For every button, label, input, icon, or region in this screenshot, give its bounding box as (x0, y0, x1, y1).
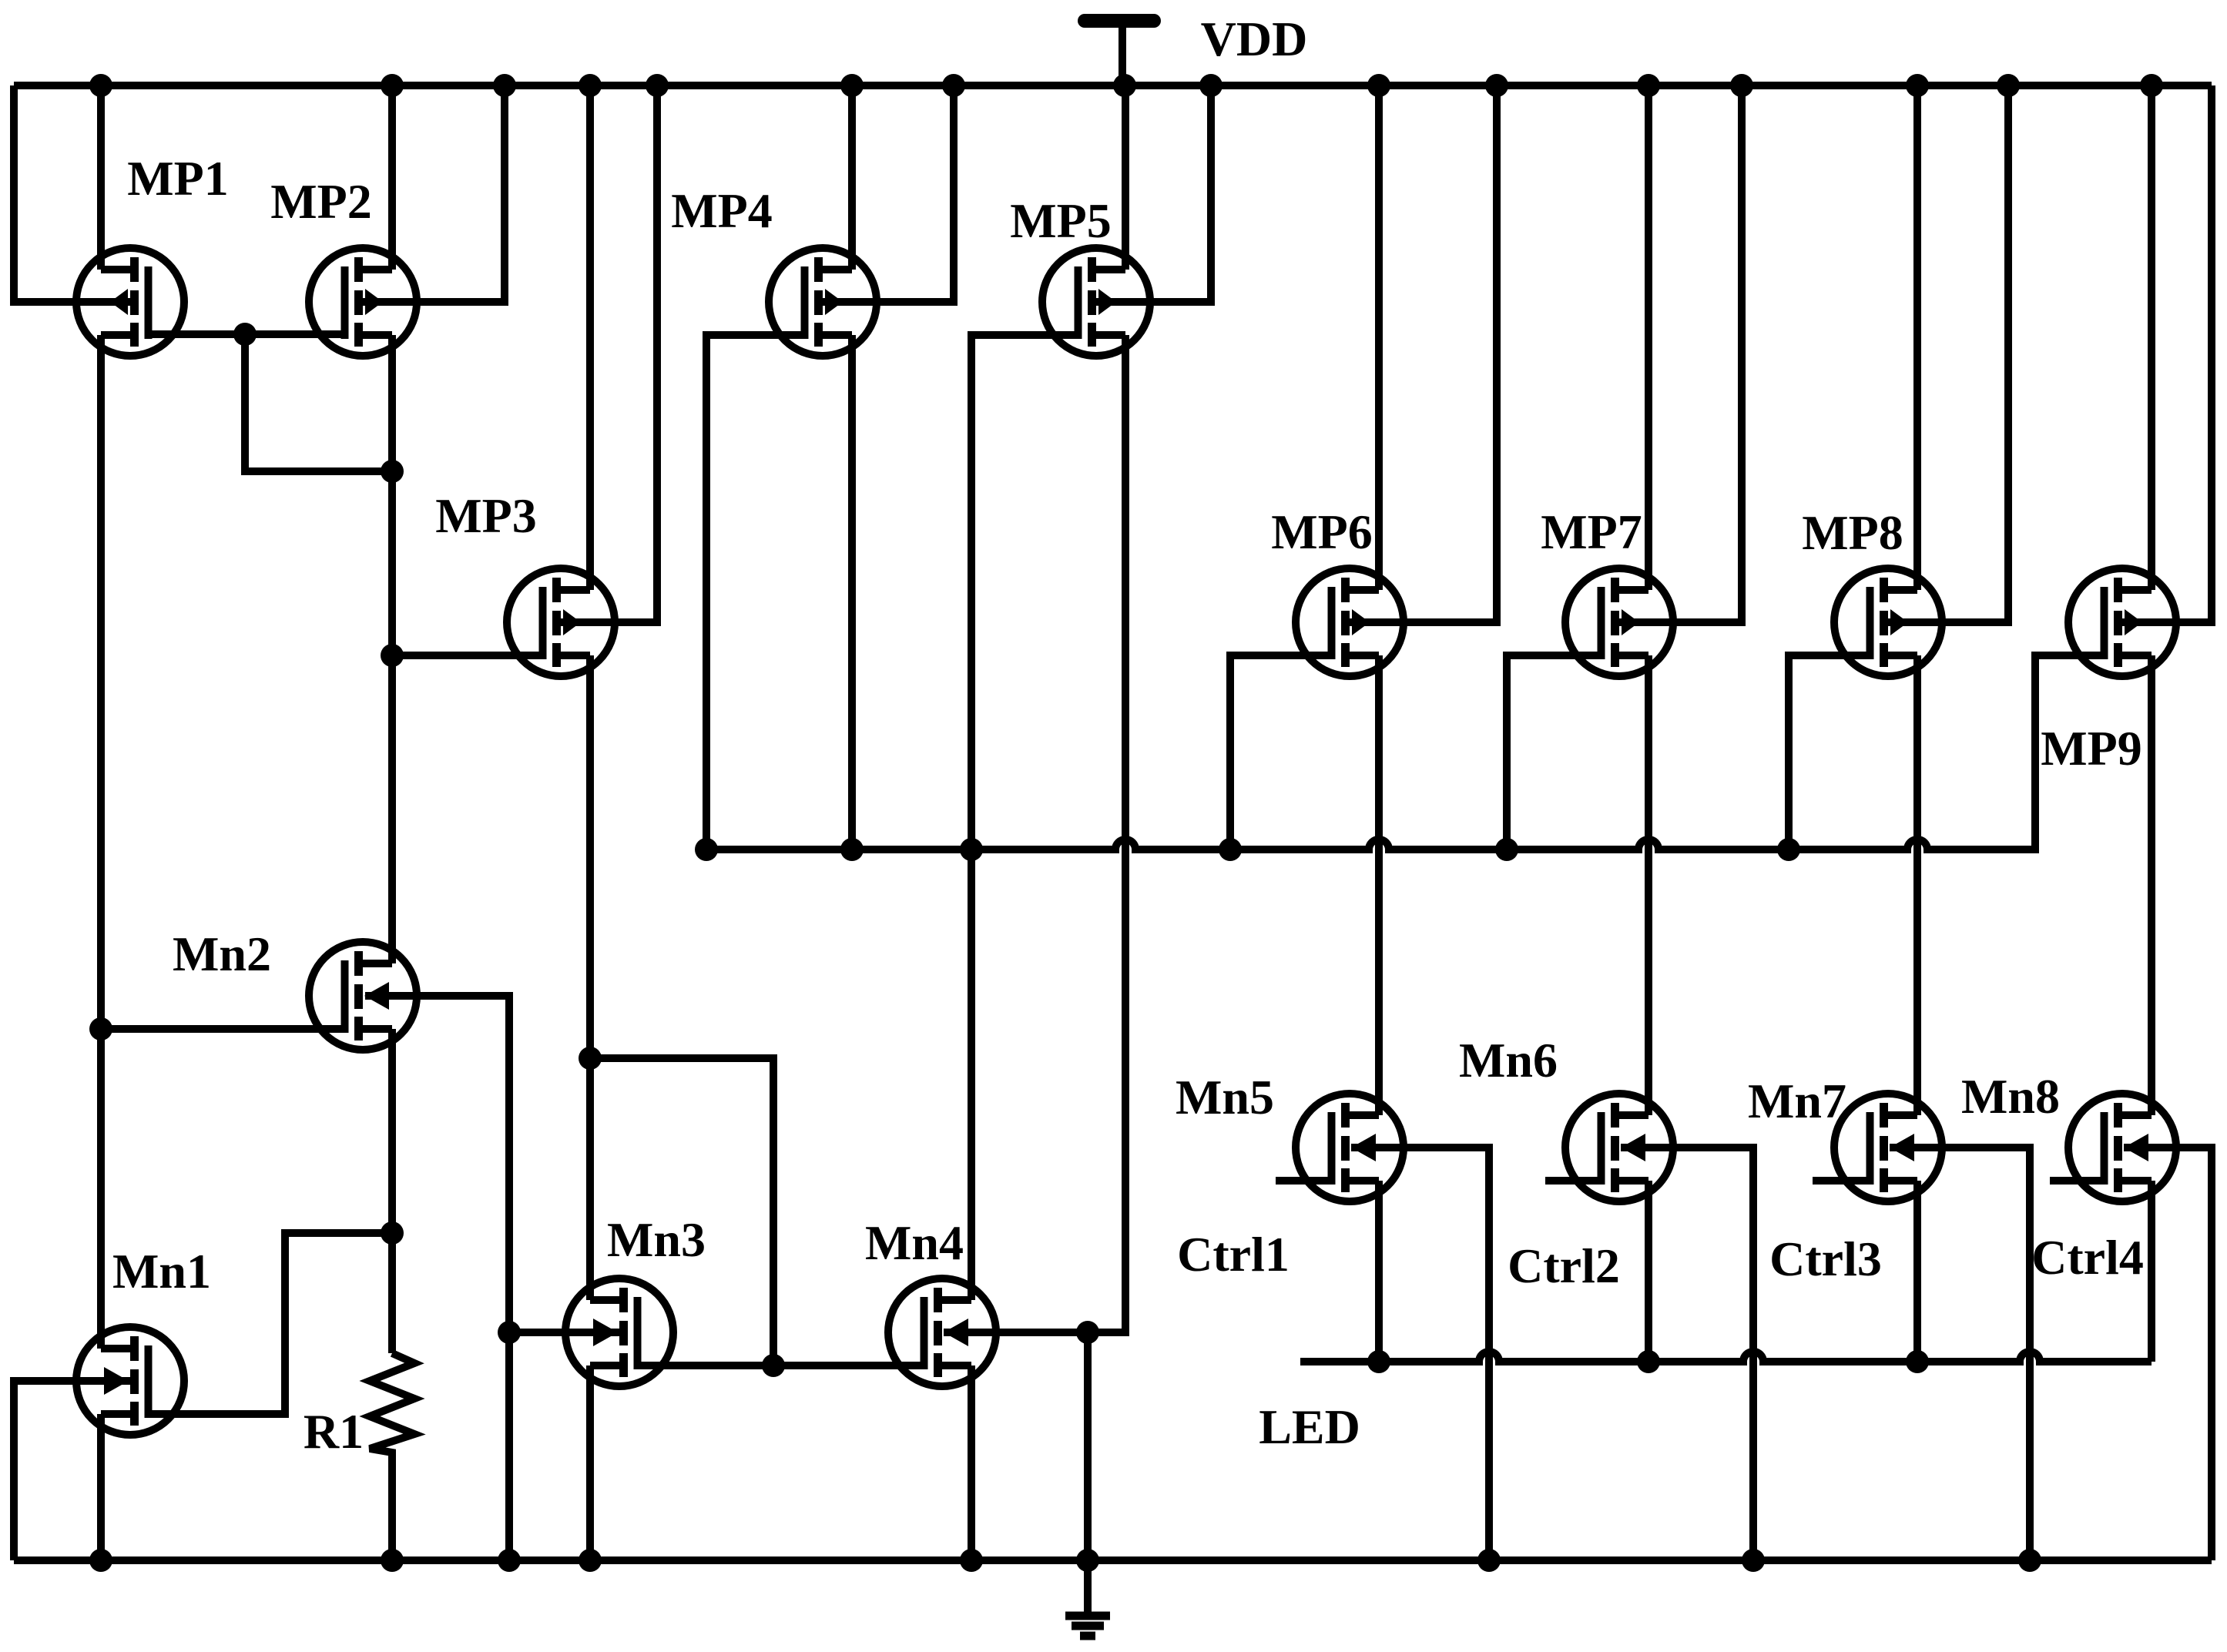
ground symbol bar 3 (1080, 1632, 1095, 1640)
node MP7 drain on VDD rail (1637, 74, 1660, 97)
wire MP8 gate route (1789, 655, 1870, 849)
wire gate node drop to MP2 source (245, 334, 392, 471)
wire MP7 gate route (1507, 655, 1601, 849)
wire Mn5 source to LED line (1375, 1181, 1383, 1362)
wire MP7 source to Mn6 drain (1645, 655, 1652, 1115)
node Mn7 bulk on ground rail (2018, 1549, 2041, 1572)
wire Ctrl3 gate stub (1813, 1177, 1870, 1185)
node MP7 bulk on VDD rail (1730, 74, 1753, 97)
wire Mn2 gate route (101, 1025, 345, 1033)
svg-text:R1: R1 (304, 1404, 364, 1459)
svg-text:Mn6: Mn6 (1459, 1033, 1558, 1087)
resistor R1 zigzag (370, 1353, 414, 1560)
top VDD rail wire (14, 82, 2212, 89)
transistor Mn1 (76, 1327, 184, 1435)
node MP9 drain on VDD rail (2140, 74, 2163, 97)
wire MP3 drain from VDD rail (586, 85, 594, 590)
wire MP7 drain (1645, 85, 1652, 590)
transistor MP3 (507, 568, 615, 676)
wire MP9 drain (2148, 85, 2155, 590)
node Mn4 source on ground rail (960, 1549, 983, 1572)
svg-text:Mn3: Mn3 (607, 1212, 706, 1267)
wire MP8 bulk to VDD rail (1890, 85, 2008, 622)
node Mn1 source on ground rail (89, 1549, 112, 1572)
wire Mn1 bulk to ground rail (14, 1381, 131, 1560)
transistor MP2 (309, 248, 417, 356)
transistor MP6 (1296, 568, 1404, 676)
wire MP9 source to Mn8 drain (2148, 655, 2155, 1115)
svg-text:MP2: MP2 (270, 174, 372, 229)
node MP4 drain on VDD rail (840, 74, 864, 97)
svg-text:MP7: MP7 (1541, 504, 1642, 559)
node Mn6 source on LED line (1637, 1350, 1660, 1373)
transistor MP4 (769, 248, 877, 356)
svg-text:Mn4: Mn4 (865, 1215, 964, 1270)
svg-text:Mn8: Mn8 (1961, 1069, 2060, 1124)
node MP6 gate on bias bus (1219, 838, 1242, 861)
svg-text:MP1: MP1 (127, 151, 229, 206)
node MP5 bulk on VDD rail (1199, 74, 1223, 97)
wire Ctrl2 gate stub (1545, 1177, 1601, 1185)
node MP3 gate tap (381, 644, 404, 667)
transistor MP5 (1042, 248, 1150, 356)
wire Mn3 gate tie route (590, 1058, 773, 1365)
wire Mn8 source to LED line end (2148, 1181, 2155, 1362)
wire MP6 gate route (1230, 655, 1332, 849)
node MP4 source on bias bus (840, 838, 864, 861)
wire MP5 source down to Mn4 bulk level (1089, 335, 1125, 1332)
node Mn4 bulk / ground tap (1076, 1321, 1099, 1344)
node MP6 drain on VDD rail (1367, 74, 1390, 97)
wire Ctrl4 gate stub (2050, 1177, 2105, 1185)
node MP1 source / Mn2 gate junction (89, 1017, 112, 1040)
svg-text:Mn5: Mn5 (1176, 1070, 1274, 1124)
node Mn3 source on ground rail (579, 1549, 602, 1572)
bottom ground rail wire (14, 1556, 2212, 1564)
svg-text:MP5: MP5 (1010, 193, 1112, 248)
node Mn2/Mn3 bulk tap (498, 1321, 521, 1344)
node MP4 gate on bias bus (695, 838, 718, 861)
node MP1/MP2 gate junction (233, 323, 257, 346)
ground symbol stem (1084, 1560, 1092, 1613)
node MP3 bulk on VDD rail (646, 74, 669, 97)
transistor Mn5 (1296, 1094, 1404, 1201)
wire Ctrl1 gate stub (1276, 1177, 1332, 1185)
wire Mn3 gate lead (637, 1362, 773, 1369)
transistor Mn4 (888, 1278, 996, 1386)
svg-text:Mn7: Mn7 (1748, 1074, 1846, 1128)
wire bias bus (706, 655, 2105, 849)
node Mn3/Mn4 gate junction (762, 1354, 785, 1377)
transistor Mn2 (309, 942, 417, 1050)
node MP1 drain on VDD rail (89, 74, 112, 97)
wire MP5 drain (1122, 85, 1129, 270)
svg-text:MP4: MP4 (671, 183, 773, 238)
svg-text:MP3: MP3 (435, 488, 537, 543)
svg-text:Mn1: Mn1 (112, 1244, 211, 1298)
wire MP1 source to Mn1 drain (97, 335, 105, 1349)
transistor MP7 (1565, 568, 1673, 676)
wire Mn7 bulk drop to ground rail (1890, 1148, 2030, 1560)
wire MP4 gate route (706, 335, 805, 849)
wire left edge VDD drop to MP1 bulk (14, 85, 131, 302)
node bulk drop on ground rail (498, 1549, 521, 1572)
svg-text:Ctrl1: Ctrl1 (1177, 1227, 1290, 1282)
wire Mn1 gate route (148, 1233, 392, 1414)
wire MP6 bulk to VDD rail (1351, 85, 1497, 622)
ground symbol bar 2 (1072, 1622, 1104, 1630)
VDD stem wire (1119, 21, 1126, 85)
node Mn1 gate / R1 top junction (381, 1221, 404, 1245)
wire MP6 drain (1375, 85, 1383, 590)
wire MP3 source to Mn3 drain (586, 655, 594, 1300)
ground symbol bar 1 (1065, 1612, 1110, 1620)
node Mn5 source on LED line (1367, 1350, 1390, 1373)
svg-text:MP6: MP6 (1271, 504, 1373, 559)
wire Mn4 gate lead (773, 1362, 924, 1369)
wire MP8 drain (1913, 85, 1921, 590)
wire MP4 drain (848, 85, 856, 270)
transistor Mn7 (1834, 1094, 1942, 1201)
wire MP2 source to Mn2 drain (388, 335, 396, 963)
wire Mn1 source to ground rail (97, 1414, 105, 1560)
svg-text:VDD: VDD (1201, 12, 1308, 66)
wire MP7 bulk to VDD rail (1621, 85, 1742, 622)
wire Mn5 bulk drop to ground rail (1351, 1148, 1489, 1560)
wire Mn6 bulk drop to ground rail (1621, 1148, 1753, 1560)
node MP5 gate / Mn4 drain on bias bus (960, 838, 983, 861)
wire Mn2 bulk drop (365, 996, 509, 1560)
wire Mn4 source to ground rail (968, 1365, 975, 1560)
wire Mn4 bulk route (944, 1329, 1088, 1336)
wire MP8 source to Mn7 drain (1913, 655, 1921, 1115)
wire MP4 source to bias bus (848, 335, 856, 849)
wire ground drop (1084, 1332, 1092, 1560)
wire Mn7 source to LED line (1913, 1181, 1921, 1362)
node R1 bottom on ground rail (381, 1549, 404, 1572)
wire MP3 gate route (392, 652, 543, 659)
svg-text:Ctrl3: Ctrl3 (1769, 1231, 1882, 1286)
wire MP9 bulk to right edge VDD drop (2124, 85, 2212, 622)
wire MP5 gate route (971, 335, 1078, 849)
wire Mn2 source to R1 top (388, 1029, 396, 1353)
transistor MP9 (2068, 568, 2176, 676)
wire MP2 bulk to VDD rail (365, 85, 505, 302)
wire Mn6 source to LED line (1645, 1181, 1652, 1362)
node MP2 drain on VDD rail (381, 74, 404, 97)
node MP2 source / gate tie junction (381, 460, 404, 483)
wire MP4 bulk to VDD rail (824, 85, 954, 302)
wire MP1 gate to MP2 gate (148, 330, 345, 338)
transistor Mn8 (2068, 1094, 2176, 1201)
node Mn7 source on LED line (1906, 1350, 1929, 1373)
node MP5 drain / VDD stem on rail (1113, 74, 1136, 97)
svg-text:LED: LED (1259, 1399, 1360, 1454)
transistor Mn6 (1565, 1094, 1673, 1201)
svg-text:Ctrl4: Ctrl4 (2031, 1230, 2144, 1285)
wire MP3 bulk to VDD rail (563, 85, 657, 622)
node MP4 bulk on VDD rail (942, 74, 965, 97)
wire Mn4 drain from bias bus (968, 849, 975, 1300)
node MP3 drain on VDD rail (579, 74, 602, 97)
wire Mn3 source to ground rail (586, 1365, 594, 1560)
wire LED output line (1300, 1352, 2152, 1362)
transistor MP1 (76, 248, 184, 356)
node ground symbol on rail (1076, 1549, 1099, 1572)
node MP8 drain on VDD rail (1906, 74, 1929, 97)
wire MP5 bulk to VDD rail (1098, 85, 1211, 302)
node MP6 bulk on VDD rail (1485, 74, 1508, 97)
wire MP6 source to Mn5 drain (1375, 655, 1383, 1115)
svg-text:MP9: MP9 (2041, 721, 2142, 776)
node Mn6 bulk on ground rail (1742, 1549, 1765, 1572)
transistor Mn3 (565, 1278, 673, 1386)
node MP2 bulk on VDD rail (493, 74, 516, 97)
wire Mn8 bulk to ground rail corner (2124, 1148, 2212, 1560)
svg-text:MP8: MP8 (1802, 505, 1903, 560)
wire MP1 drain (97, 85, 105, 270)
node MP8 bulk on VDD rail (1997, 74, 2020, 97)
node Mn3 drain / gate tie (579, 1047, 602, 1070)
svg-text:Ctrl2: Ctrl2 (1508, 1238, 1620, 1293)
node Mn5 bulk on ground rail (1477, 1549, 1501, 1572)
node MP8 gate on bias bus (1777, 838, 1800, 861)
wire MP2 drain (388, 85, 396, 270)
svg-text:Mn2: Mn2 (173, 927, 271, 981)
transistor MP8 (1834, 568, 1942, 676)
wire Mn3 bulk route (509, 1329, 621, 1336)
node MP7 gate on bias bus (1495, 838, 1518, 861)
VDD power bar (1085, 14, 1154, 28)
